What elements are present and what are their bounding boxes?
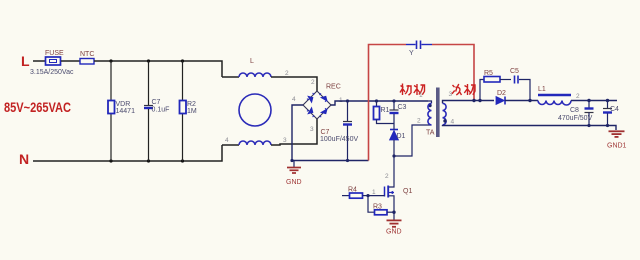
svg-text:0.1uF: 0.1uF xyxy=(152,107,170,114)
capacitor Y xyxy=(406,41,432,58)
node N-VDR xyxy=(109,159,112,162)
wire primary ground rail xyxy=(292,160,369,162)
wire L rail xyxy=(94,61,222,77)
wire D2 to L1 xyxy=(505,100,538,102)
node Y-cap to output xyxy=(472,99,475,102)
node C5 rejoin xyxy=(528,99,531,102)
thermistor NTC xyxy=(80,51,94,64)
svg-text:TA: TA xyxy=(426,130,435,137)
ground GND (Q1 source) xyxy=(386,220,402,235)
wire L lead xyxy=(33,60,45,62)
svg-text:GND1: GND1 xyxy=(607,143,627,150)
node snubber branch xyxy=(478,99,481,102)
node N-C7 xyxy=(147,159,150,162)
wire gate xyxy=(368,195,385,197)
svg-text:2: 2 xyxy=(417,118,421,125)
svg-text:NTC: NTC xyxy=(80,51,94,58)
wire bridge negative to primary ground rail xyxy=(292,105,303,161)
inductor L1 xyxy=(538,86,580,105)
common-mode choke bottom winding xyxy=(222,137,287,145)
common-mode choke L top winding xyxy=(222,58,289,77)
svg-text:4: 4 xyxy=(451,119,455,126)
wire bridge positive to DC rail xyxy=(331,101,428,105)
node gnd-left xyxy=(290,159,293,162)
transformer TA secondary winding xyxy=(443,91,455,126)
ground GND1 xyxy=(607,131,627,149)
svg-text:R5: R5 xyxy=(484,70,493,77)
svg-text:1M: 1M xyxy=(187,108,197,115)
node gate xyxy=(366,194,369,197)
diode D2 xyxy=(496,90,506,105)
svg-text:2: 2 xyxy=(576,93,580,100)
svg-text:L: L xyxy=(21,53,30,69)
node L-VDR xyxy=(109,59,112,62)
node source-R3 xyxy=(392,211,395,214)
wire Y-cap red loop xyxy=(369,45,475,161)
node gnd-C7b xyxy=(346,159,349,162)
svg-text:1: 1 xyxy=(372,189,376,196)
wire secondary ground rail xyxy=(443,125,617,130)
wire L1 to output xyxy=(571,100,617,102)
svg-text:R4: R4 xyxy=(348,187,357,194)
wire choke pin3 to bridge AC bottom xyxy=(271,119,317,145)
wire choke pin2 to bridge AC top xyxy=(271,77,317,91)
svg-text:470uF/50V: 470uF/50V xyxy=(558,115,593,122)
svg-text:100uF/450V: 100uF/450V xyxy=(320,136,358,143)
svg-text:2: 2 xyxy=(311,79,315,86)
svg-text:14471: 14471 xyxy=(116,108,136,115)
wire fuse to NTC xyxy=(61,60,80,62)
wire secondary output rail xyxy=(443,101,495,104)
svg-text:VDR: VDR xyxy=(116,101,131,108)
svg-text:R2: R2 xyxy=(187,101,196,108)
svg-text:Q1: Q1 xyxy=(403,188,412,195)
label secondary 次级 xyxy=(452,84,475,95)
svg-text:C8: C8 xyxy=(570,107,579,114)
svg-text:C3: C3 xyxy=(398,104,407,111)
bridge rectifier REC xyxy=(292,79,343,133)
resistor R2 1M xyxy=(180,61,197,161)
svg-text:4: 4 xyxy=(225,137,229,144)
transformer TA primary winding xyxy=(417,92,435,137)
svg-text:1: 1 xyxy=(419,92,423,99)
common-mode choke core circle xyxy=(239,94,271,126)
transistor Q1 xyxy=(372,156,412,199)
svg-text:C4: C4 xyxy=(610,106,619,113)
svg-text:GND: GND xyxy=(386,229,402,236)
svg-text:3: 3 xyxy=(283,137,287,144)
wire N rail xyxy=(33,145,222,161)
svg-text:D2: D2 xyxy=(497,90,506,97)
svg-text:R3: R3 xyxy=(373,204,382,211)
node N-R2 xyxy=(181,159,184,162)
node drain junction xyxy=(392,154,395,157)
wire source to ground xyxy=(393,199,395,220)
svg-text:N: N xyxy=(19,151,29,167)
svg-text:C7: C7 xyxy=(321,129,330,136)
capacitor C4 xyxy=(603,99,619,126)
svg-text:2: 2 xyxy=(385,173,389,180)
ground GND primary xyxy=(286,161,302,187)
svg-text:3: 3 xyxy=(310,126,314,133)
svg-text:L: L xyxy=(250,58,254,65)
svg-text:85V~265VAC: 85V~265VAC xyxy=(4,100,71,115)
capacitor C8 470uF/50V xyxy=(558,99,594,126)
node L-C7 xyxy=(147,59,150,62)
transformer core xyxy=(436,88,440,138)
svg-text:Y: Y xyxy=(409,50,414,57)
svg-text:FUSE: FUSE xyxy=(45,50,64,57)
diode D1 xyxy=(390,124,406,157)
fuse FUSE xyxy=(30,50,74,76)
svg-text:C5: C5 xyxy=(510,68,519,75)
capacitor C7 0.1uF xyxy=(144,61,169,161)
resistor R4 xyxy=(342,187,368,199)
svg-text:D1: D1 xyxy=(397,133,406,140)
node C8 bottom xyxy=(587,124,590,127)
svg-text:3: 3 xyxy=(449,91,453,98)
node C4 bottom xyxy=(606,124,609,127)
svg-text:REC: REC xyxy=(326,84,341,91)
resistor R5 xyxy=(484,70,511,82)
svg-text:GND: GND xyxy=(286,179,302,186)
svg-text:3.15A/250Vac: 3.15A/250Vac xyxy=(30,69,74,76)
resistor R3 xyxy=(368,196,394,215)
capacitor C7 100uF/450V xyxy=(320,99,358,160)
varistor VDR xyxy=(108,61,135,161)
svg-text:R1: R1 xyxy=(381,107,390,114)
wire snubber branch xyxy=(480,80,484,101)
svg-text:C7: C7 xyxy=(152,99,161,106)
label primary 初级 xyxy=(400,84,425,96)
node L-R2 xyxy=(181,59,184,62)
svg-text:L1: L1 xyxy=(538,86,546,93)
wire transformer pin2 to drain node xyxy=(394,125,432,156)
svg-text:2: 2 xyxy=(285,70,289,77)
svg-text:4: 4 xyxy=(292,96,296,103)
resistor R1 xyxy=(374,99,395,123)
capacitor C5 xyxy=(510,68,530,101)
capacitor C3 xyxy=(390,99,407,123)
